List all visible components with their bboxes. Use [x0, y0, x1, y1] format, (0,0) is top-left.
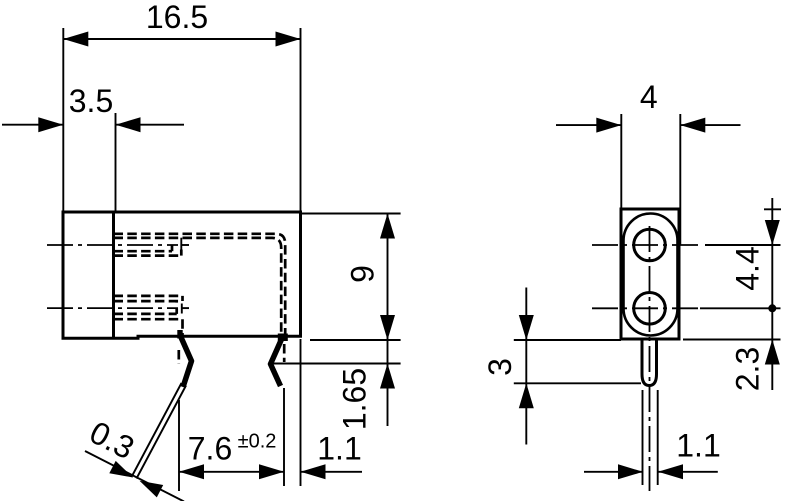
svg-text:3: 3 — [482, 358, 518, 376]
svg-text:±0.2: ±0.2 — [238, 431, 277, 453]
svg-text:7.6: 7.6 — [188, 431, 232, 467]
svg-text:1.1: 1.1 — [317, 431, 361, 467]
svg-text:9: 9 — [345, 265, 381, 283]
svg-text:1.1: 1.1 — [676, 427, 720, 463]
svg-text:4.4: 4.4 — [730, 246, 766, 290]
svg-text:2.3: 2.3 — [730, 347, 766, 391]
svg-text:16.5: 16.5 — [146, 0, 208, 35]
svg-text:4: 4 — [640, 79, 658, 115]
svg-text:1.65: 1.65 — [337, 368, 373, 430]
svg-text:3.5: 3.5 — [69, 83, 113, 119]
